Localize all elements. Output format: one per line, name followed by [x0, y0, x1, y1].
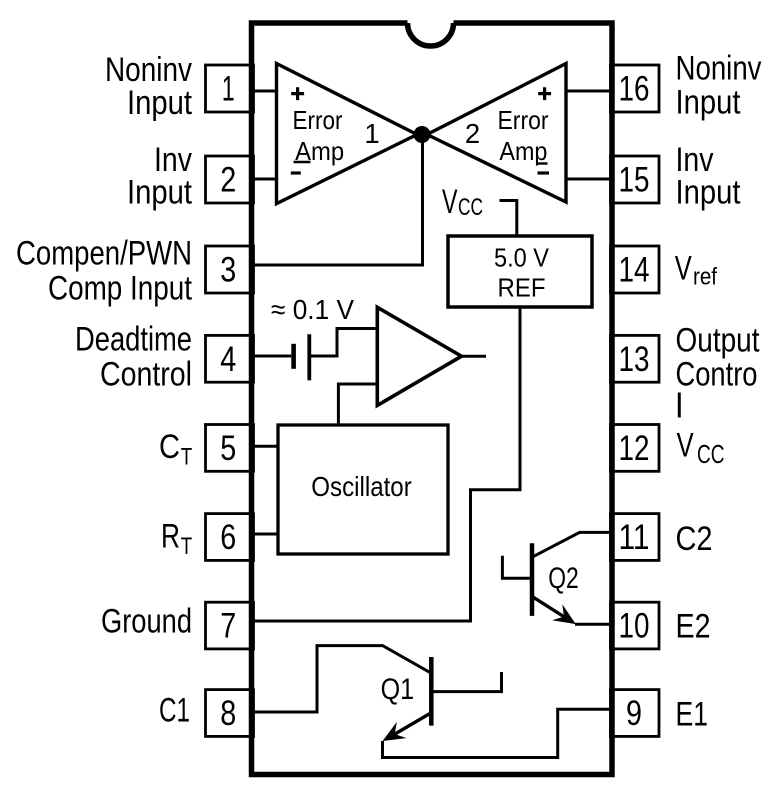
- svg-text:Noninv: Noninv: [676, 50, 762, 88]
- svg-text:Error: Error: [293, 105, 343, 135]
- svg-text:10: 10: [619, 606, 650, 646]
- svg-text:13: 13: [619, 339, 650, 379]
- svg-text:9: 9: [626, 693, 642, 733]
- svg-text:Oscillator: Oscillator: [311, 471, 412, 502]
- svg-text:Contro: Contro: [676, 355, 758, 393]
- svg-text:E2: E2: [676, 607, 711, 645]
- svg-text:Error: Error: [498, 105, 549, 135]
- svg-text:11: 11: [619, 517, 650, 557]
- svg-text:Amp: Amp: [499, 136, 547, 166]
- svg-text:R: R: [161, 517, 180, 555]
- svg-text:C1: C1: [159, 692, 190, 730]
- svg-text:8: 8: [220, 693, 236, 733]
- svg-text:Input: Input: [127, 173, 192, 211]
- svg-text:2: 2: [465, 118, 480, 149]
- svg-text:Q2: Q2: [548, 562, 579, 595]
- svg-text:7: 7: [220, 606, 236, 646]
- svg-text:C2: C2: [676, 520, 713, 558]
- svg-text:12: 12: [619, 428, 650, 468]
- svg-text:Output: Output: [676, 321, 760, 359]
- svg-text:CC: CC: [697, 439, 725, 469]
- svg-text:CC: CC: [458, 194, 483, 221]
- svg-text:5.0 V: 5.0 V: [494, 243, 550, 273]
- svg-text:T: T: [181, 533, 193, 560]
- svg-text:1: 1: [222, 69, 235, 109]
- svg-text:14: 14: [619, 250, 650, 290]
- svg-text:V: V: [677, 427, 694, 465]
- svg-text:l: l: [676, 387, 684, 425]
- svg-text:Comp Input: Comp Input: [48, 269, 192, 307]
- svg-text:16: 16: [619, 69, 650, 109]
- svg-text:Deadtime: Deadtime: [75, 321, 192, 359]
- svg-text:Input: Input: [676, 84, 741, 122]
- svg-text:4: 4: [220, 339, 236, 379]
- svg-text:15: 15: [619, 160, 650, 200]
- svg-text:6: 6: [220, 517, 236, 557]
- svg-text:E1: E1: [676, 695, 709, 733]
- svg-text:V: V: [675, 250, 692, 288]
- svg-text:V: V: [442, 183, 458, 221]
- svg-text:5: 5: [220, 428, 236, 468]
- svg-text:Input: Input: [676, 173, 741, 211]
- svg-text:3: 3: [220, 250, 236, 290]
- svg-text:ref: ref: [693, 264, 717, 291]
- svg-text:T: T: [181, 444, 193, 471]
- svg-text:Ground: Ground: [101, 602, 192, 640]
- svg-text:Compen/PWN: Compen/PWN: [16, 234, 192, 272]
- svg-text:1: 1: [364, 118, 379, 149]
- svg-text:REF: REF: [498, 272, 546, 302]
- svg-text:Q1: Q1: [381, 673, 415, 706]
- svg-text:≈ 0.1 V: ≈ 0.1 V: [271, 294, 354, 325]
- svg-text:Control: Control: [100, 356, 192, 394]
- svg-text:2: 2: [220, 160, 236, 200]
- svg-text:Input: Input: [127, 84, 192, 122]
- svg-text:C: C: [159, 428, 180, 466]
